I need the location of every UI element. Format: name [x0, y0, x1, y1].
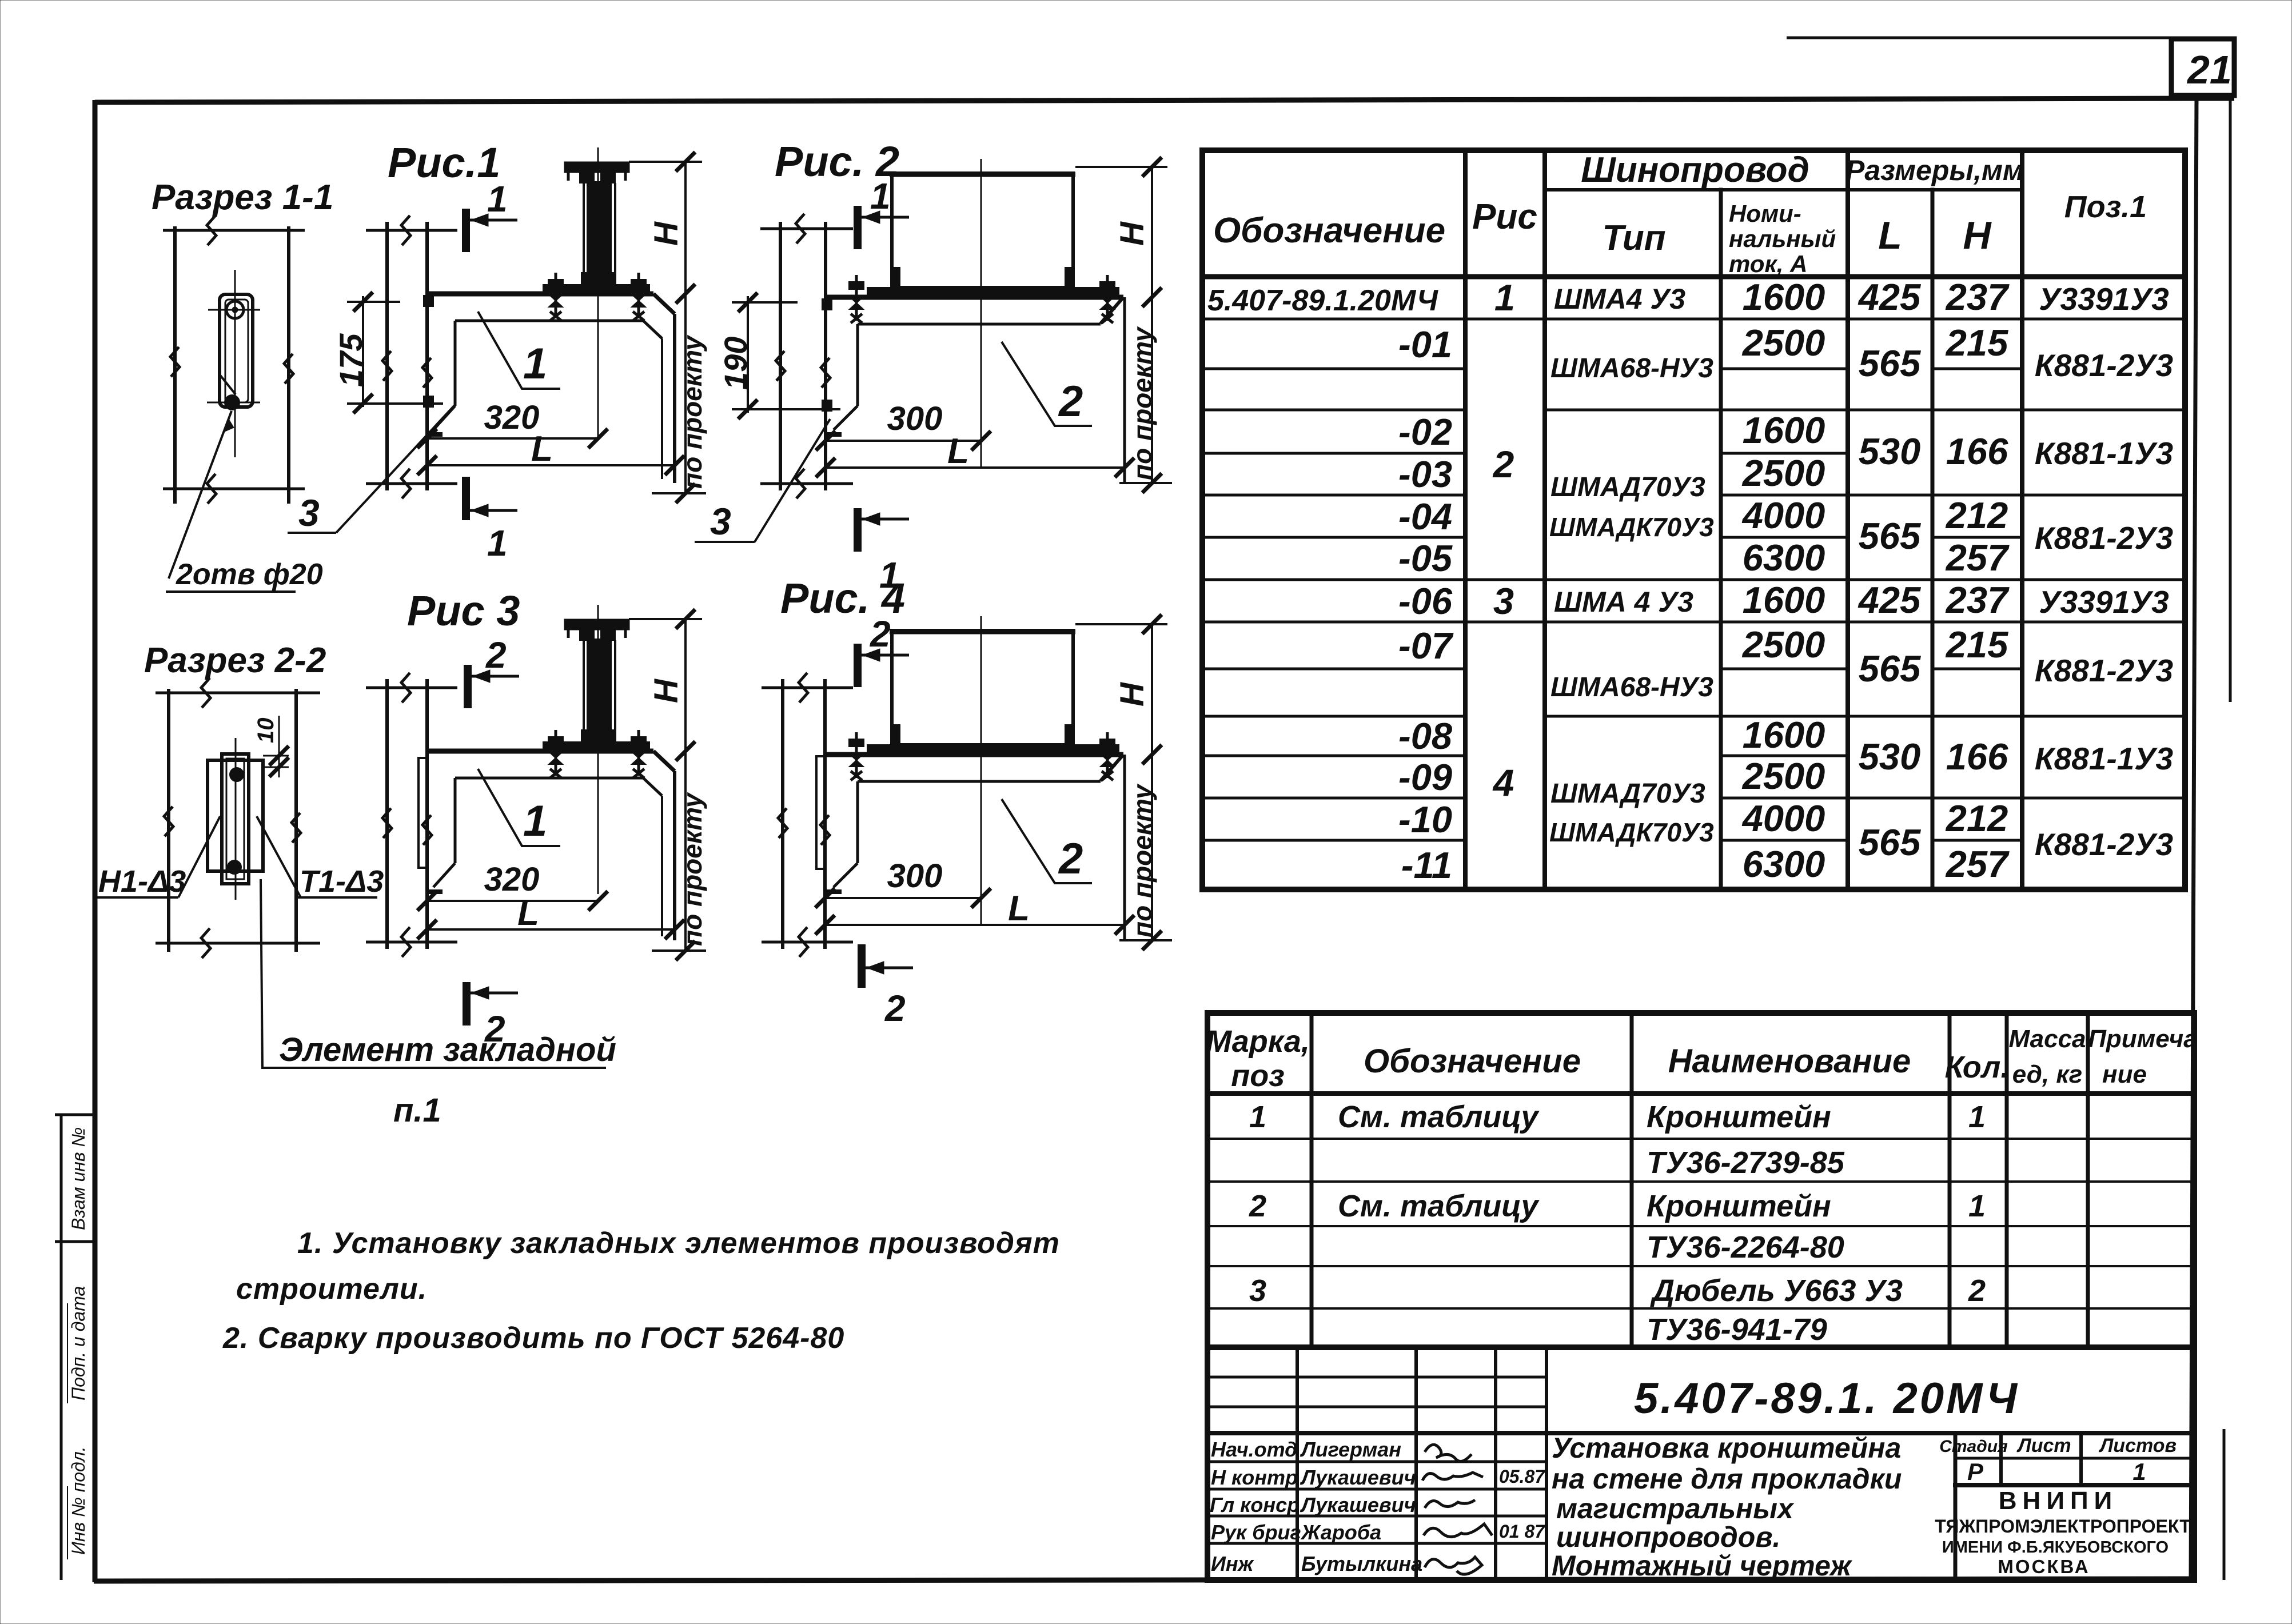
svg-text:300: 300	[887, 400, 943, 437]
spec table header text	[1206, 1024, 2198, 1093]
busbar duct ШМА68	[890, 173, 1075, 288]
svg-text:530: 530	[1859, 430, 1920, 472]
svg-text:Установка кронштейна: Установка кронштейна	[1552, 1432, 1901, 1464]
svg-text:-05: -05	[1398, 537, 1453, 579]
svg-text:ШМАД70У3: ШМАД70У3	[1550, 779, 1705, 809]
svg-text:Н: Н	[1963, 214, 1992, 257]
svg-text:215: 215	[1945, 624, 2008, 665]
svg-text:1600: 1600	[1743, 409, 1825, 451]
svg-text:1600: 1600	[1743, 276, 1825, 318]
svg-text:425: 425	[1857, 579, 1921, 621]
svg-text:Жароба: Жароба	[1300, 1521, 1381, 1544]
svg-text:2500: 2500	[1741, 322, 1825, 364]
bolt bottom	[225, 395, 240, 410]
svg-text:-11: -11	[1401, 844, 1452, 886]
svg-text:4: 4	[1492, 761, 1514, 804]
svg-text:Обозначение: Обозначение	[1213, 211, 1445, 250]
svg-text:212: 212	[1945, 494, 2008, 536]
svg-text:магистральных: магистральных	[1556, 1493, 1795, 1525]
svg-text:2500: 2500	[1741, 624, 1825, 665]
svg-text:ВНИПИ: ВНИПИ	[1999, 1487, 2118, 1515]
svg-text:2: 2	[1058, 377, 1083, 426]
svg-text:5.407-89.1.20МЧ: 5.407-89.1.20МЧ	[1207, 284, 1438, 317]
wall	[366, 222, 457, 490]
leader 1	[478, 312, 560, 389]
svg-text:ток, А: ток, А	[1729, 250, 1807, 277]
dim H	[1075, 166, 1167, 168]
svg-text:Обозначение: Обозначение	[1364, 1043, 1581, 1080]
svg-text:ШМАД70У3: ШМАД70У3	[1550, 472, 1705, 502]
svg-text:Рис: Рис	[1472, 197, 1537, 237]
big table data	[1207, 276, 2173, 886]
svg-text:См. таблицу: См. таблицу	[1338, 1189, 1540, 1223]
svg-text:Рис.1: Рис.1	[388, 139, 500, 186]
svg-text:6300: 6300	[1743, 843, 1825, 885]
svg-text:215: 215	[1945, 322, 2008, 364]
svg-text:565: 565	[1859, 821, 1921, 863]
svg-text:ШМА68-НУ3: ШМА68-НУ3	[1550, 353, 1713, 384]
svg-text:ШМА4 У3: ШМА4 У3	[1554, 283, 1685, 315]
clamp bar	[543, 285, 649, 294]
center line	[597, 147, 599, 437]
svg-text:Подп. и дата: Подп. и дата	[68, 1286, 89, 1400]
section mark 2 bottom	[463, 982, 471, 1026]
bracket поз.1	[427, 294, 675, 483]
svg-text:ИМЕНИ Ф.Б.ЯКУБОВСКОГО: ИМЕНИ Ф.Б.ЯКУБОВСКОГО	[1942, 1538, 2169, 1557]
svg-text:166: 166	[1946, 430, 2008, 472]
svg-text:530: 530	[1859, 736, 1920, 777]
leader 1	[478, 769, 560, 846]
svg-text:257: 257	[1945, 537, 2010, 578]
svg-text:1: 1	[870, 175, 891, 217]
bracket channel section	[220, 294, 253, 407]
svg-text:1: 1	[523, 797, 547, 845]
svg-text:К881-1У3: К881-1У3	[2035, 741, 2173, 776]
svg-text:2500: 2500	[1741, 755, 1825, 797]
svg-text:320: 320	[484, 861, 540, 898]
svg-text:ТУ36-2264-80: ТУ36-2264-80	[1647, 1230, 1844, 1264]
svg-text:Примеча: Примеча	[2088, 1025, 2197, 1053]
svg-text:257: 257	[1945, 843, 2010, 885]
dim L	[427, 928, 675, 931]
svg-text:У3391У3: У3391У3	[2039, 584, 2169, 620]
svg-text:1: 1	[1968, 1100, 1986, 1134]
svg-text:Гл конср: Гл конср	[1210, 1493, 1300, 1517]
svg-text:2: 2	[884, 988, 906, 1029]
svg-text:2: 2	[1492, 443, 1514, 485]
wall	[366, 679, 457, 949]
svg-text:Инж: Инж	[1211, 1552, 1255, 1575]
svg-text:Разрез 1-1: Разрез 1-1	[152, 178, 333, 217]
svg-text:Рук бриг: Рук бриг	[1211, 1521, 1301, 1544]
svg-text:Стадия: Стадия	[1939, 1437, 2008, 1456]
bracket поз.2	[825, 755, 1125, 940]
svg-text:6300: 6300	[1743, 537, 1825, 578]
svg-text:Лигерман: Лигерман	[1300, 1438, 1401, 1461]
svg-text:Кол.: Кол.	[1945, 1050, 2010, 1084]
busbar duct ШМА68	[890, 631, 1075, 745]
svg-text:2. Сварку производить по ГО: 2. Сварку производить по ГОСТ 5264-80	[222, 1322, 844, 1355]
dim 190	[732, 296, 840, 413]
svg-text:Н1-Δ3: Н1-Δ3	[98, 864, 186, 899]
svg-text:1. Установку закладных элеме: 1. Установку закладных элементов произво…	[297, 1227, 1060, 1260]
center line	[235, 738, 237, 900]
svg-text:по проекту: по проекту	[1127, 783, 1157, 937]
center line	[980, 616, 982, 925]
svg-text:Н: Н	[1114, 682, 1151, 707]
svg-text:10: 10	[253, 718, 278, 744]
clamp bar	[543, 742, 649, 751]
svg-text:-06: -06	[1398, 580, 1453, 622]
svg-text:237: 237	[1945, 579, 2010, 621]
svg-text:по проекту: по проекту	[677, 792, 707, 946]
page number box "21" top right	[1787, 38, 2234, 95]
section mark 1 top	[854, 206, 862, 249]
svg-text:-09: -09	[1398, 756, 1452, 798]
svg-text:Н: Н	[1114, 221, 1151, 246]
svg-text:Взам инв №: Взам инв №	[68, 1127, 89, 1230]
svg-text:565: 565	[1859, 648, 1921, 689]
svg-text:К881-1У3: К881-1У3	[2035, 436, 2173, 471]
svg-text:565: 565	[1859, 342, 1921, 384]
svg-text:L: L	[947, 432, 969, 471]
svg-text:-02: -02	[1398, 411, 1452, 453]
svg-text:на стене для прокладки: на стене для прокладки	[1552, 1463, 1902, 1495]
dim H	[1075, 623, 1167, 625]
svg-text:L: L	[1008, 889, 1030, 928]
svg-text:К881-2У3: К881-2У3	[2035, 653, 2173, 688]
svg-text:Н: Н	[648, 679, 685, 703]
right part	[1954, 1433, 1958, 1580]
leader 2	[1002, 799, 1092, 883]
svg-text:п.1: п.1	[393, 1092, 441, 1129]
bracket поз.1	[427, 751, 675, 940]
narrow top rows (left part)	[1207, 1376, 1546, 1379]
dim 300	[825, 897, 981, 899]
svg-text:Кронштейн: Кронштейн	[1647, 1100, 1831, 1134]
svg-text:2: 2	[1968, 1274, 1986, 1308]
row lines: Поз column	[2022, 319, 2185, 798]
svg-text:-07: -07	[1398, 625, 1454, 667]
svg-text:1: 1	[523, 340, 547, 388]
svg-text:Нач.отд: Нач.отд	[1211, 1438, 1297, 1461]
svg-text:Разрез 2-2: Разрез 2-2	[144, 641, 326, 680]
svg-text:L: L	[517, 893, 539, 933]
clamp bar	[867, 288, 1119, 296]
svg-text:Наименование: Наименование	[1668, 1043, 1911, 1080]
svg-text:К881-2У3: К881-2У3	[2035, 520, 2173, 556]
wall section	[163, 226, 305, 504]
svg-text:-01: -01	[1398, 324, 1452, 365]
spec table data	[1249, 1100, 1986, 1347]
svg-text:Элемент закладной: Элемент закладной	[279, 1031, 616, 1068]
ВНИПИ institute block	[1935, 1487, 2191, 1577]
svg-text:ТЯЖПРОМЭЛЕКТРОПРОЕКТ: ТЯЖПРОМЭЛЕКТРОПРОЕКТ	[1935, 1516, 2191, 1537]
svg-text:L: L	[531, 429, 553, 469]
wall section	[156, 689, 320, 952]
svg-text:Шинопровод: Шинопровод	[1581, 150, 1809, 190]
dim по проекту	[684, 751, 687, 951]
dim 300	[826, 440, 981, 442]
dim H	[629, 161, 702, 163]
wall	[760, 222, 853, 490]
svg-text:ТУ36-2739-85: ТУ36-2739-85	[1647, 1146, 1845, 1180]
header sub-lines	[1545, 188, 1848, 191]
svg-text:Лист: Лист	[2016, 1435, 2071, 1457]
dim 320	[427, 437, 598, 440]
svg-text:Н: Н	[648, 221, 685, 246]
svg-text:1: 1	[1494, 277, 1515, 318]
svg-text:166: 166	[1946, 736, 2008, 777]
dowel marks	[424, 296, 433, 306]
svg-text:К881-2У3: К881-2У3	[2035, 827, 2173, 862]
dim H	[629, 618, 702, 620]
center lines	[234, 270, 236, 457]
svg-text:Поз.1: Поз.1	[2064, 190, 2147, 224]
dim L	[427, 464, 675, 466]
svg-text:нальный: нальный	[1729, 225, 1836, 252]
big table header text	[1213, 150, 2147, 277]
svg-text:05.87: 05.87	[1499, 1466, 1546, 1487]
svg-text:425: 425	[1857, 276, 1921, 318]
svg-text:-08: -08	[1398, 715, 1453, 757]
svg-text:Кронштейн: Кронштейн	[1647, 1189, 1831, 1223]
svg-text:2: 2	[485, 635, 507, 676]
svg-text:ШМА 4 У3: ШМА 4 У3	[1554, 586, 1693, 618]
dim 175	[347, 296, 443, 407]
svg-text:Рис 3: Рис 3	[407, 587, 520, 635]
row lines: ток column	[1721, 319, 1848, 840]
row lines: Рис column	[1465, 319, 1545, 622]
svg-text:3: 3	[710, 500, 731, 542]
section mark 2 top	[464, 665, 472, 708]
svg-text:ед, кг: ед, кг	[2012, 1060, 2082, 1088]
svg-text:-03: -03	[1398, 453, 1452, 495]
svg-text:ШМАДК70У3: ШМАДК70У3	[1549, 817, 1714, 847]
section mark 1 bottom	[462, 477, 470, 520]
row lines: L column	[1848, 319, 1932, 798]
row lines: Тип column	[1545, 319, 1721, 716]
section mark 1 top	[462, 209, 470, 252]
clamp bar	[867, 745, 1119, 753]
svg-text:МОСКВА: МОСКВА	[1998, 1556, 2090, 1577]
dim L	[826, 466, 1125, 469]
svg-text:1600: 1600	[1743, 579, 1825, 621]
signatures squiggles	[1422, 1445, 1492, 1574]
svg-text:Лукашевич: Лукашевич	[1300, 1466, 1416, 1489]
svg-text:4000: 4000	[1741, 494, 1825, 536]
svg-text:Дюбель У663 У3: Дюбель У663 У3	[1650, 1274, 1903, 1308]
main horizontal	[1207, 1431, 2194, 1435]
bolts	[230, 768, 244, 781]
section mark 1 bottom	[854, 508, 862, 552]
svg-text:2отв ф20: 2отв ф20	[176, 558, 323, 591]
leader 2	[1002, 342, 1092, 426]
svg-text:3: 3	[1493, 580, 1514, 622]
svg-text:См. таблицу: См. таблицу	[1338, 1100, 1540, 1134]
svg-text:Листов: Листов	[2098, 1435, 2177, 1457]
dim по проекту	[684, 294, 687, 493]
left margin column boxes	[55, 1115, 95, 1580]
svg-text:К881-2У3: К881-2У3	[2035, 348, 2173, 383]
svg-text:поз: поз	[1231, 1059, 1285, 1093]
svg-text:Бутылкина: Бутылкина	[1301, 1552, 1422, 1575]
svg-text:Тип: Тип	[1602, 218, 1665, 258]
busbar assembly ШМА	[565, 162, 629, 285]
column dividers	[1463, 150, 1468, 889]
bracket channel	[222, 754, 249, 884]
center line	[980, 159, 982, 468]
svg-text:ние: ние	[2102, 1060, 2147, 1088]
svg-text:2: 2	[1058, 835, 1083, 883]
svg-text:Инв № подл.: Инв № подл.	[68, 1446, 89, 1555]
svg-text:3: 3	[298, 492, 320, 534]
svg-text:Т1-Δ3: Т1-Δ3	[300, 864, 384, 899]
bolt top	[226, 301, 244, 318]
svg-text:5.407-89.1. 20МЧ: 5.407-89.1. 20МЧ	[1634, 1374, 2019, 1423]
signature rows	[1207, 1461, 1546, 1463]
svg-text:2: 2	[870, 613, 891, 655]
embedded plate	[816, 756, 825, 869]
svg-text:по проекту: по проекту	[1127, 326, 1157, 480]
leader 2отв ф20	[169, 411, 232, 578]
dim по проекту	[1151, 755, 1153, 940]
dim по проекту	[1151, 297, 1153, 483]
svg-text:Н контр: Н контр	[1211, 1466, 1298, 1489]
leader to Элемент закладной	[261, 879, 606, 1068]
wall	[762, 679, 853, 949]
svg-text:1: 1	[1249, 1100, 1266, 1134]
center line	[597, 605, 599, 894]
svg-text:шинопроводов.: шинопроводов.	[1556, 1521, 1780, 1553]
svg-text:L: L	[1878, 214, 1902, 257]
svg-text:4000: 4000	[1741, 797, 1825, 839]
dowel marks	[822, 299, 832, 310]
svg-text:175: 175	[333, 333, 369, 387]
dim L	[825, 924, 1125, 926]
embedded plate	[418, 758, 427, 868]
svg-text:1: 1	[487, 522, 508, 564]
svg-text:Масса: Масса	[2008, 1025, 2086, 1053]
svg-text:ШМАДК70У3: ШМАДК70У3	[1549, 512, 1714, 542]
topic text	[1552, 1432, 1902, 1582]
row lines: H column	[1932, 319, 2022, 840]
svg-text:2: 2	[1249, 1189, 1266, 1223]
svg-text:строители.: строители.	[236, 1272, 427, 1306]
embedded plate	[208, 760, 263, 871]
svg-text:Р: Р	[1967, 1458, 1984, 1485]
svg-text:21: 21	[2186, 47, 2232, 92]
svg-text:212: 212	[1945, 797, 2008, 839]
svg-text:ТУ36-941-79: ТУ36-941-79	[1647, 1312, 1827, 1347]
svg-text:01 87: 01 87	[1499, 1521, 1546, 1542]
svg-text:-04: -04	[1398, 496, 1452, 537]
bracket поз.2	[826, 297, 1125, 483]
svg-text:3: 3	[1249, 1274, 1266, 1308]
section mark 2 top	[854, 644, 862, 687]
svg-text:Номи-: Номи-	[1729, 200, 1801, 227]
svg-text:ШМА68-НУ3: ШМА68-НУ3	[1550, 672, 1713, 703]
svg-text:Марка,: Марка,	[1206, 1024, 1310, 1059]
svg-text:Размеры,мм: Размеры,мм	[1845, 154, 2024, 186]
svg-text:Монтажный чертеж: Монтажный чертеж	[1552, 1550, 1852, 1582]
svg-text:1: 1	[1968, 1189, 1986, 1223]
svg-text:190: 190	[718, 337, 754, 390]
signature area columns	[1296, 1347, 1299, 1580]
svg-text:237: 237	[1945, 276, 2010, 318]
svg-text:У3391У3: У3391У3	[2039, 281, 2169, 317]
dim 320	[427, 900, 598, 902]
dim 10	[263, 755, 289, 757]
stage cells	[1939, 1435, 2177, 1485]
svg-text:по проекту: по проекту	[677, 334, 707, 489]
svg-text:1: 1	[2132, 1458, 2146, 1485]
svg-text:300: 300	[887, 857, 943, 895]
svg-text:1: 1	[487, 178, 508, 220]
busbar assembly ШМА	[565, 620, 629, 743]
svg-text:565: 565	[1859, 515, 1921, 557]
table outer border	[1202, 150, 2185, 889]
row lines: Обозначение column	[1202, 319, 1465, 840]
svg-text:1600: 1600	[1743, 714, 1825, 756]
svg-text:2500: 2500	[1741, 452, 1825, 494]
section mark 2 bottom	[858, 944, 866, 988]
svg-text:-10: -10	[1398, 799, 1452, 840]
svg-text:Лукашевич: Лукашевич	[1300, 1493, 1416, 1517]
